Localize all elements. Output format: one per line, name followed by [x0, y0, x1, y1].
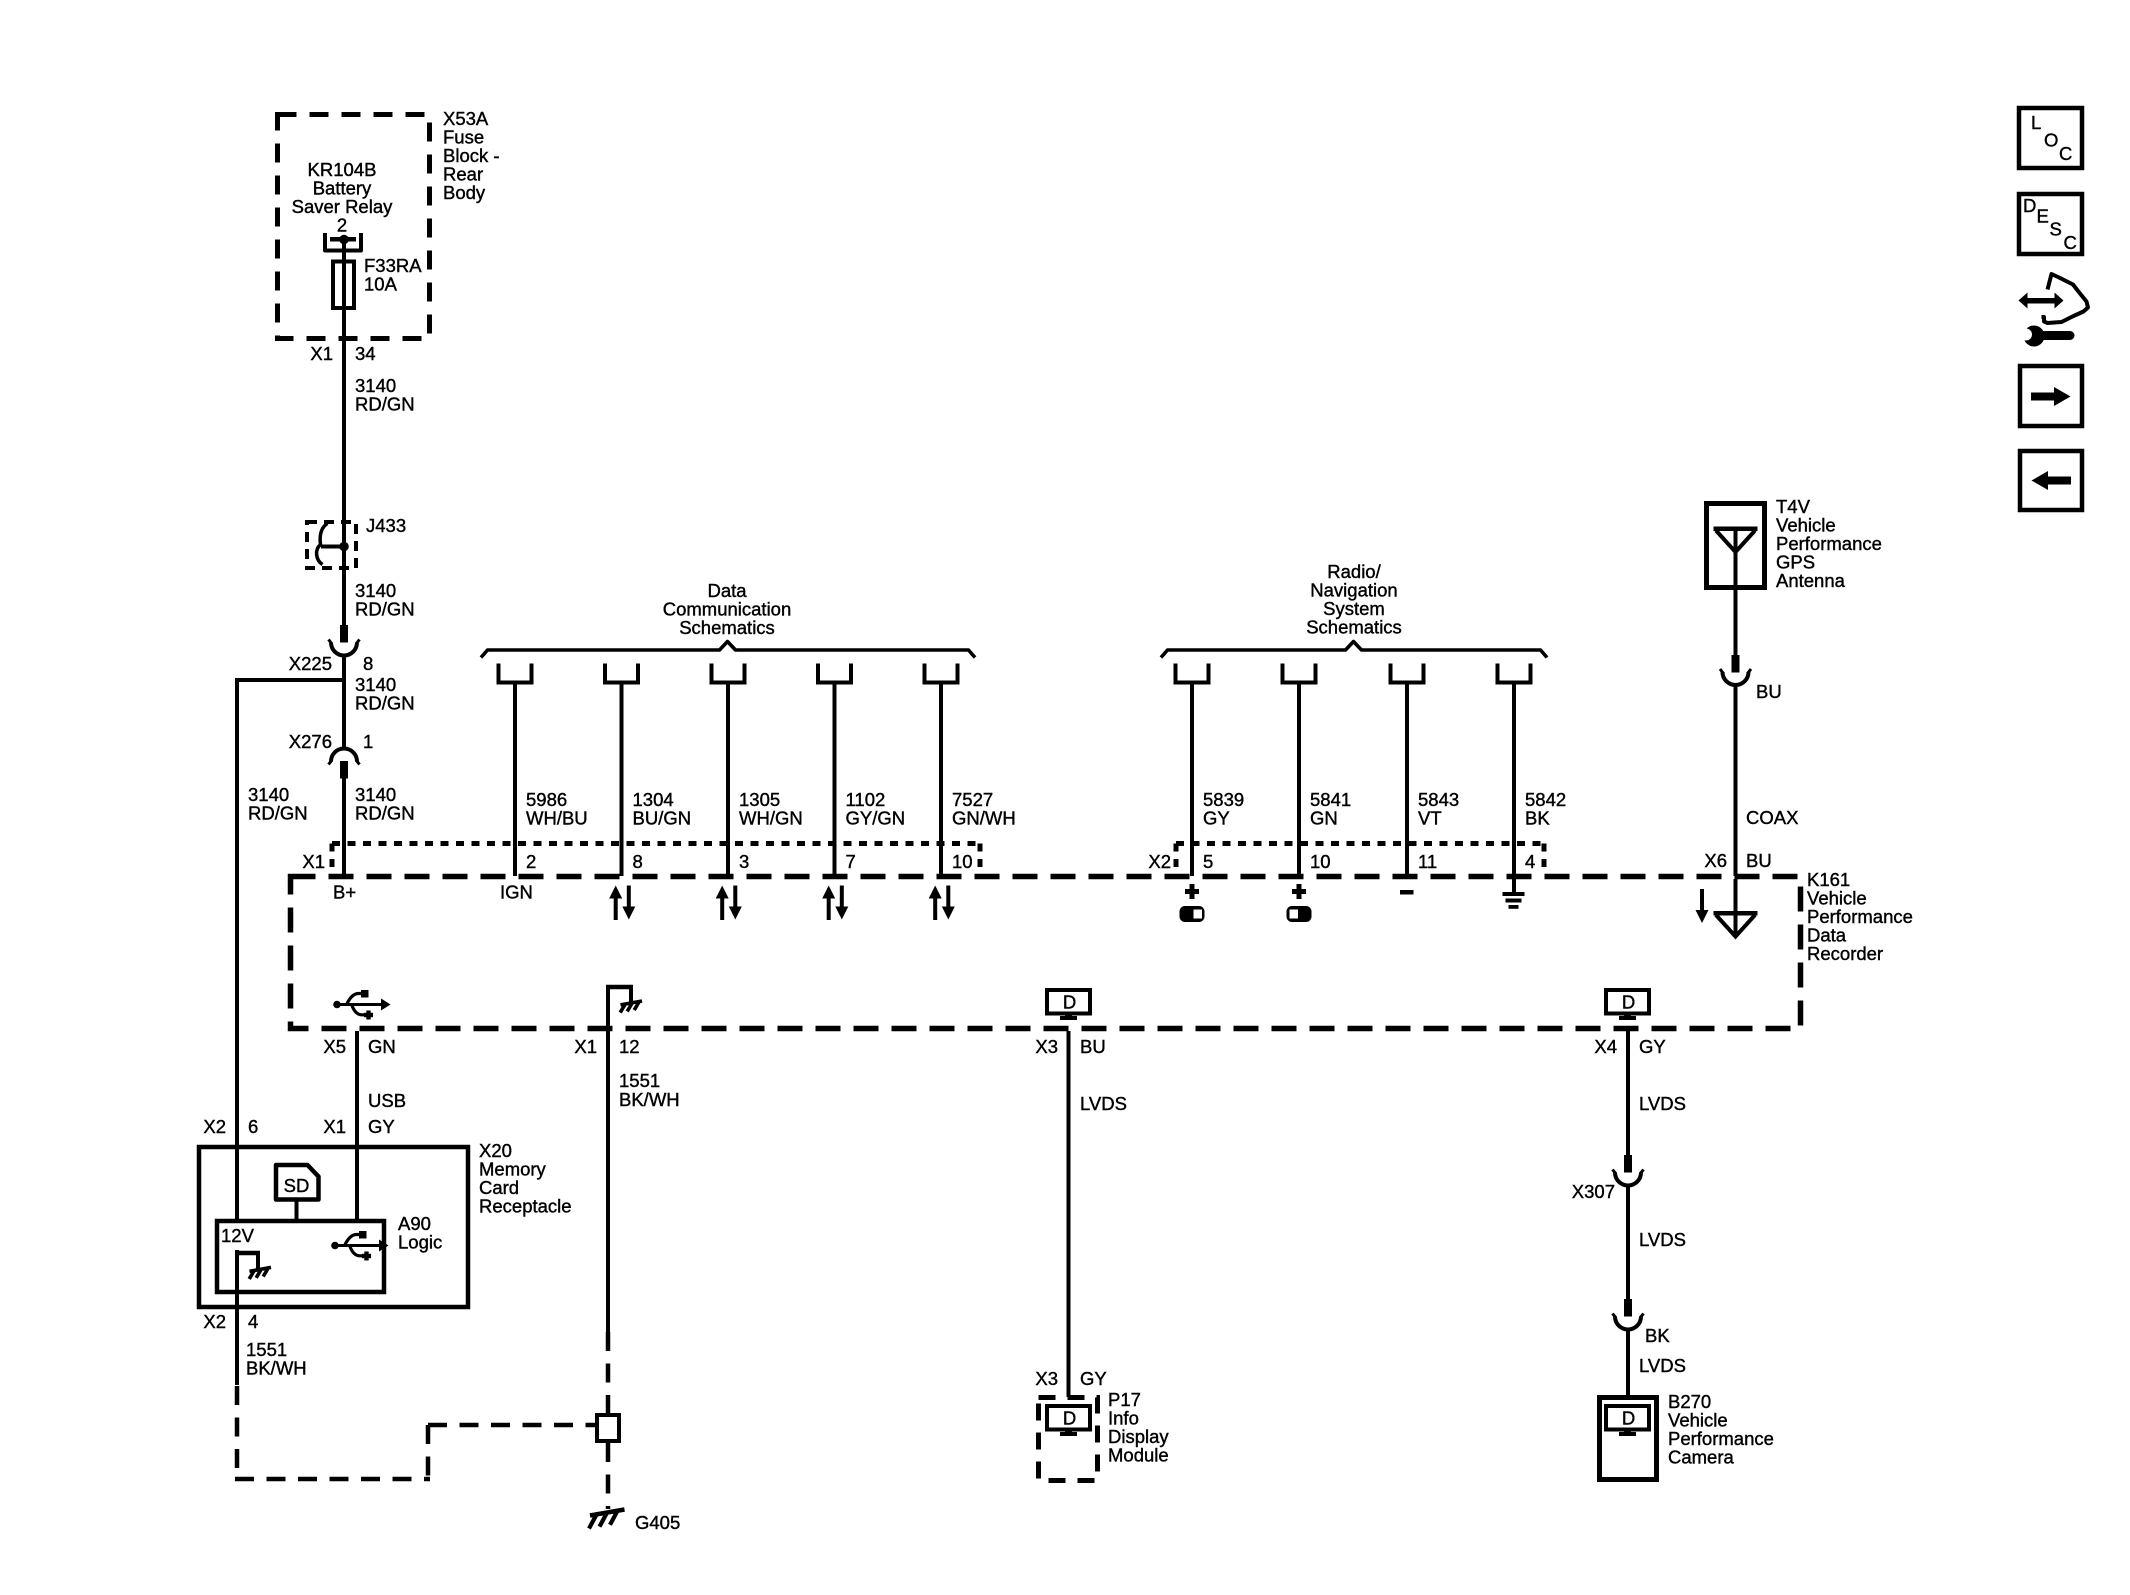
svg-text:S: S [2050, 219, 2062, 240]
svg-text:GN: GN [368, 1036, 396, 1057]
svg-text:IGN: IGN [500, 882, 533, 903]
svg-text:GN/WH: GN/WH [952, 808, 1016, 829]
svg-text:X1: X1 [302, 851, 325, 872]
svg-text:WH/BU: WH/BU [526, 808, 588, 829]
svg-text:O: O [2044, 130, 2058, 151]
svg-text:BK/WH: BK/WH [619, 1089, 680, 1110]
svg-text:COAX: COAX [1746, 807, 1798, 828]
svg-text:RD/GN: RD/GN [248, 803, 308, 824]
svg-text:RD/GN: RD/GN [355, 693, 415, 714]
svg-text:BK: BK [1525, 808, 1550, 829]
svg-text:VT: VT [1418, 808, 1442, 829]
svg-text:GY: GY [368, 1116, 395, 1137]
svg-text:GN: GN [1310, 808, 1338, 829]
svg-text:4: 4 [248, 1311, 258, 1332]
svg-text:Camera: Camera [1668, 1447, 1735, 1468]
svg-text:1551: 1551 [619, 1070, 660, 1091]
svg-text:LVDS: LVDS [1639, 1355, 1686, 1376]
svg-text:WH/GN: WH/GN [739, 808, 803, 829]
svg-text:E: E [2037, 206, 2049, 227]
svg-text:Schematics: Schematics [1306, 617, 1402, 638]
svg-text:X4: X4 [1594, 1036, 1617, 1057]
svg-text:BU: BU [1080, 1036, 1106, 1057]
svg-text:SD: SD [284, 1175, 310, 1196]
svg-text:X1: X1 [323, 1116, 346, 1137]
svg-text:2: 2 [337, 215, 347, 236]
svg-text:LVDS: LVDS [1080, 1093, 1127, 1114]
svg-text:10A: 10A [364, 274, 398, 295]
svg-text:B+: B+ [333, 882, 356, 903]
svg-text:LVDS: LVDS [1639, 1093, 1686, 1114]
svg-text:X3: X3 [1035, 1368, 1058, 1389]
svg-text:D: D [2023, 195, 2036, 216]
svg-text:GY: GY [1639, 1036, 1666, 1057]
svg-text:RD/GN: RD/GN [355, 394, 415, 415]
svg-text:Logic: Logic [398, 1232, 442, 1253]
svg-text:Module: Module [1108, 1445, 1169, 1466]
svg-text:C: C [2064, 232, 2077, 253]
svg-text:X3: X3 [1035, 1036, 1058, 1057]
svg-text:X1: X1 [574, 1036, 597, 1057]
svg-text:X2: X2 [203, 1116, 226, 1137]
svg-text:USB: USB [368, 1090, 406, 1111]
svg-text:G405: G405 [635, 1512, 680, 1533]
svg-text:Recorder: Recorder [1807, 943, 1883, 964]
svg-text:Schematics: Schematics [679, 617, 775, 638]
svg-text:3: 3 [739, 851, 749, 872]
svg-text:X307: X307 [1572, 1181, 1615, 1202]
svg-text:RD/GN: RD/GN [355, 803, 415, 824]
svg-text:GY: GY [1080, 1368, 1107, 1389]
svg-text:12: 12 [619, 1036, 640, 1057]
svg-text:X1: X1 [310, 343, 333, 364]
svg-text:Antenna: Antenna [1776, 570, 1846, 591]
svg-text:RD/GN: RD/GN [355, 599, 415, 620]
svg-text:GY: GY [1203, 808, 1230, 829]
svg-text:1: 1 [363, 731, 373, 752]
svg-text:34: 34 [355, 343, 376, 364]
svg-text:5: 5 [1203, 851, 1213, 872]
svg-text:LVDS: LVDS [1639, 1229, 1686, 1250]
svg-text:GY/GN: GY/GN [846, 808, 906, 829]
svg-text:6: 6 [248, 1116, 258, 1137]
svg-text:X6: X6 [1704, 850, 1727, 871]
svg-text:BK/WH: BK/WH [246, 1358, 307, 1379]
svg-text:X2: X2 [1148, 851, 1171, 872]
svg-text:7: 7 [846, 851, 856, 872]
svg-text:X225: X225 [289, 653, 332, 674]
svg-text:X5: X5 [323, 1036, 346, 1057]
svg-text:4: 4 [1525, 851, 1535, 872]
svg-text:J433: J433 [366, 515, 406, 536]
svg-text:BU/GN: BU/GN [633, 808, 692, 829]
svg-text:L: L [2031, 112, 2041, 133]
svg-text:10: 10 [1310, 851, 1331, 872]
svg-text:BU: BU [1756, 681, 1782, 702]
svg-text:11: 11 [1418, 851, 1437, 872]
svg-text:C: C [2059, 143, 2072, 164]
svg-text:10: 10 [952, 851, 973, 872]
svg-text:12V: 12V [221, 1225, 255, 1246]
svg-text:2: 2 [526, 851, 536, 872]
svg-text:BK: BK [1645, 1325, 1670, 1346]
svg-text:Receptacle: Receptacle [479, 1196, 572, 1217]
svg-text:8: 8 [633, 851, 643, 872]
svg-text:BU: BU [1746, 850, 1772, 871]
svg-text:8: 8 [363, 653, 373, 674]
svg-text:Body: Body [443, 182, 486, 203]
svg-text:X2: X2 [203, 1311, 226, 1332]
svg-text:X276: X276 [289, 731, 332, 752]
